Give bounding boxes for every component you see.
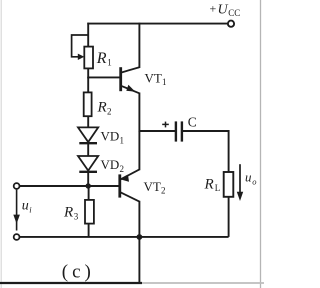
transistor VT2 collector lead (120, 192, 139, 201)
svg-text:R: R (204, 177, 214, 193)
transistor VT1 emitter lead (121, 86, 139, 94)
label VD1 (101, 129, 125, 146)
label R3 (63, 205, 79, 222)
wire: RL bottom to bottom rail (228, 197, 230, 237)
resistor RL (224, 172, 234, 197)
svg-text:u: u (245, 170, 252, 185)
svg-text:VD: VD (101, 129, 120, 144)
label uo (245, 170, 256, 187)
label VD2 (101, 157, 125, 174)
svg-text:U: U (218, 2, 229, 17)
svg-text:1: 1 (107, 58, 112, 68)
svg-text:C: C (188, 115, 197, 130)
wire: VT2 collector down to ground node (138, 201, 140, 237)
resistor R3 (85, 200, 94, 224)
svg-text:2: 2 (161, 185, 166, 195)
svg-text:3: 3 (74, 211, 79, 221)
svg-text:1: 1 (162, 77, 167, 87)
transistor VT1 base bar (119, 67, 122, 91)
svg-text:L: L (215, 183, 221, 193)
svg-text:VT: VT (145, 70, 162, 85)
svg-text:2: 2 (120, 164, 125, 174)
wire: rail down to R1 top (87, 23, 89, 47)
svg-text:o: o (252, 177, 256, 187)
svg-text:R: R (63, 205, 73, 221)
diode VD1 (78, 127, 98, 143)
terminal +Ucc (228, 21, 234, 27)
capacitor C plus sign (162, 122, 169, 128)
transistor VT2 emitter arrow (PNP, points to base) (121, 176, 129, 182)
wire: bottom rail (20, 236, 229, 238)
svg-text:u: u (22, 198, 29, 213)
svg-text:R: R (97, 100, 107, 116)
svg-text:+: + (210, 2, 217, 16)
svg-text:1: 1 (120, 135, 125, 145)
wire: R1 bottom to base node (87, 68, 89, 78)
diode VD2 (78, 156, 98, 172)
wire: R3 bottom to bottom rail (88, 224, 90, 237)
wire: input top to VT2 base (20, 185, 119, 187)
wire: capacitor to RL branch corner (183, 131, 229, 172)
wire: ground node down to bottom rule (138, 237, 140, 283)
input arrow ui (16, 190, 18, 231)
svg-text:R: R (96, 50, 107, 67)
wire: bottom ground rule (0, 282, 142, 284)
transistor VT1 emitter arrow (NPN) (126, 85, 135, 92)
svg-text:VD: VD (101, 157, 120, 172)
capacitor C plates (175, 121, 177, 141)
resistor R2 (84, 92, 92, 116)
wire: base node down to R2 top (87, 77, 89, 92)
resistor R1 (84, 47, 93, 69)
wire: VD1 cathode to VD2 anode (87, 143, 89, 156)
wire: base node to VT1 base (87, 76, 120, 78)
wire: VT1 emitter down to output node (138, 93, 140, 132)
svg-text:2: 2 (107, 107, 112, 117)
ground node junction dot (137, 234, 143, 240)
output arrow uo (239, 164, 241, 194)
label ui (22, 198, 32, 214)
transistor VT2 base bar (118, 174, 121, 197)
wire: VD2 cathode down to node A (87, 172, 89, 186)
label VT1 (145, 70, 167, 87)
wire: +Ucc top supply rail (87, 23, 228, 25)
terminal input top (14, 183, 20, 189)
wire: node A down to R3 (88, 186, 90, 200)
rheostat wiper loop of R1 (72, 35, 89, 57)
transistor VT1 collector lead (121, 67, 139, 72)
transistor VT2 emitter lead (120, 169, 139, 179)
wire: R2 bottom to VD1 anode (87, 116, 89, 128)
label R2 (97, 100, 112, 117)
node A junction dot (86, 183, 91, 188)
wire: VT2 emitter up to output node (138, 131, 140, 170)
svg-text:CC: CC (228, 8, 240, 18)
svg-text:VT: VT (144, 179, 161, 194)
wire: rail down to VT1 collector (138, 23, 140, 68)
terminal input bottom (14, 234, 20, 240)
svg-text:(c): (c) (62, 261, 95, 282)
label +Ucc (210, 2, 241, 18)
label RL (204, 177, 221, 193)
rheostat arrow head (78, 54, 85, 60)
wire: output node to capacitor (139, 130, 175, 132)
label R1 (96, 50, 112, 68)
label VT2 (144, 179, 166, 196)
